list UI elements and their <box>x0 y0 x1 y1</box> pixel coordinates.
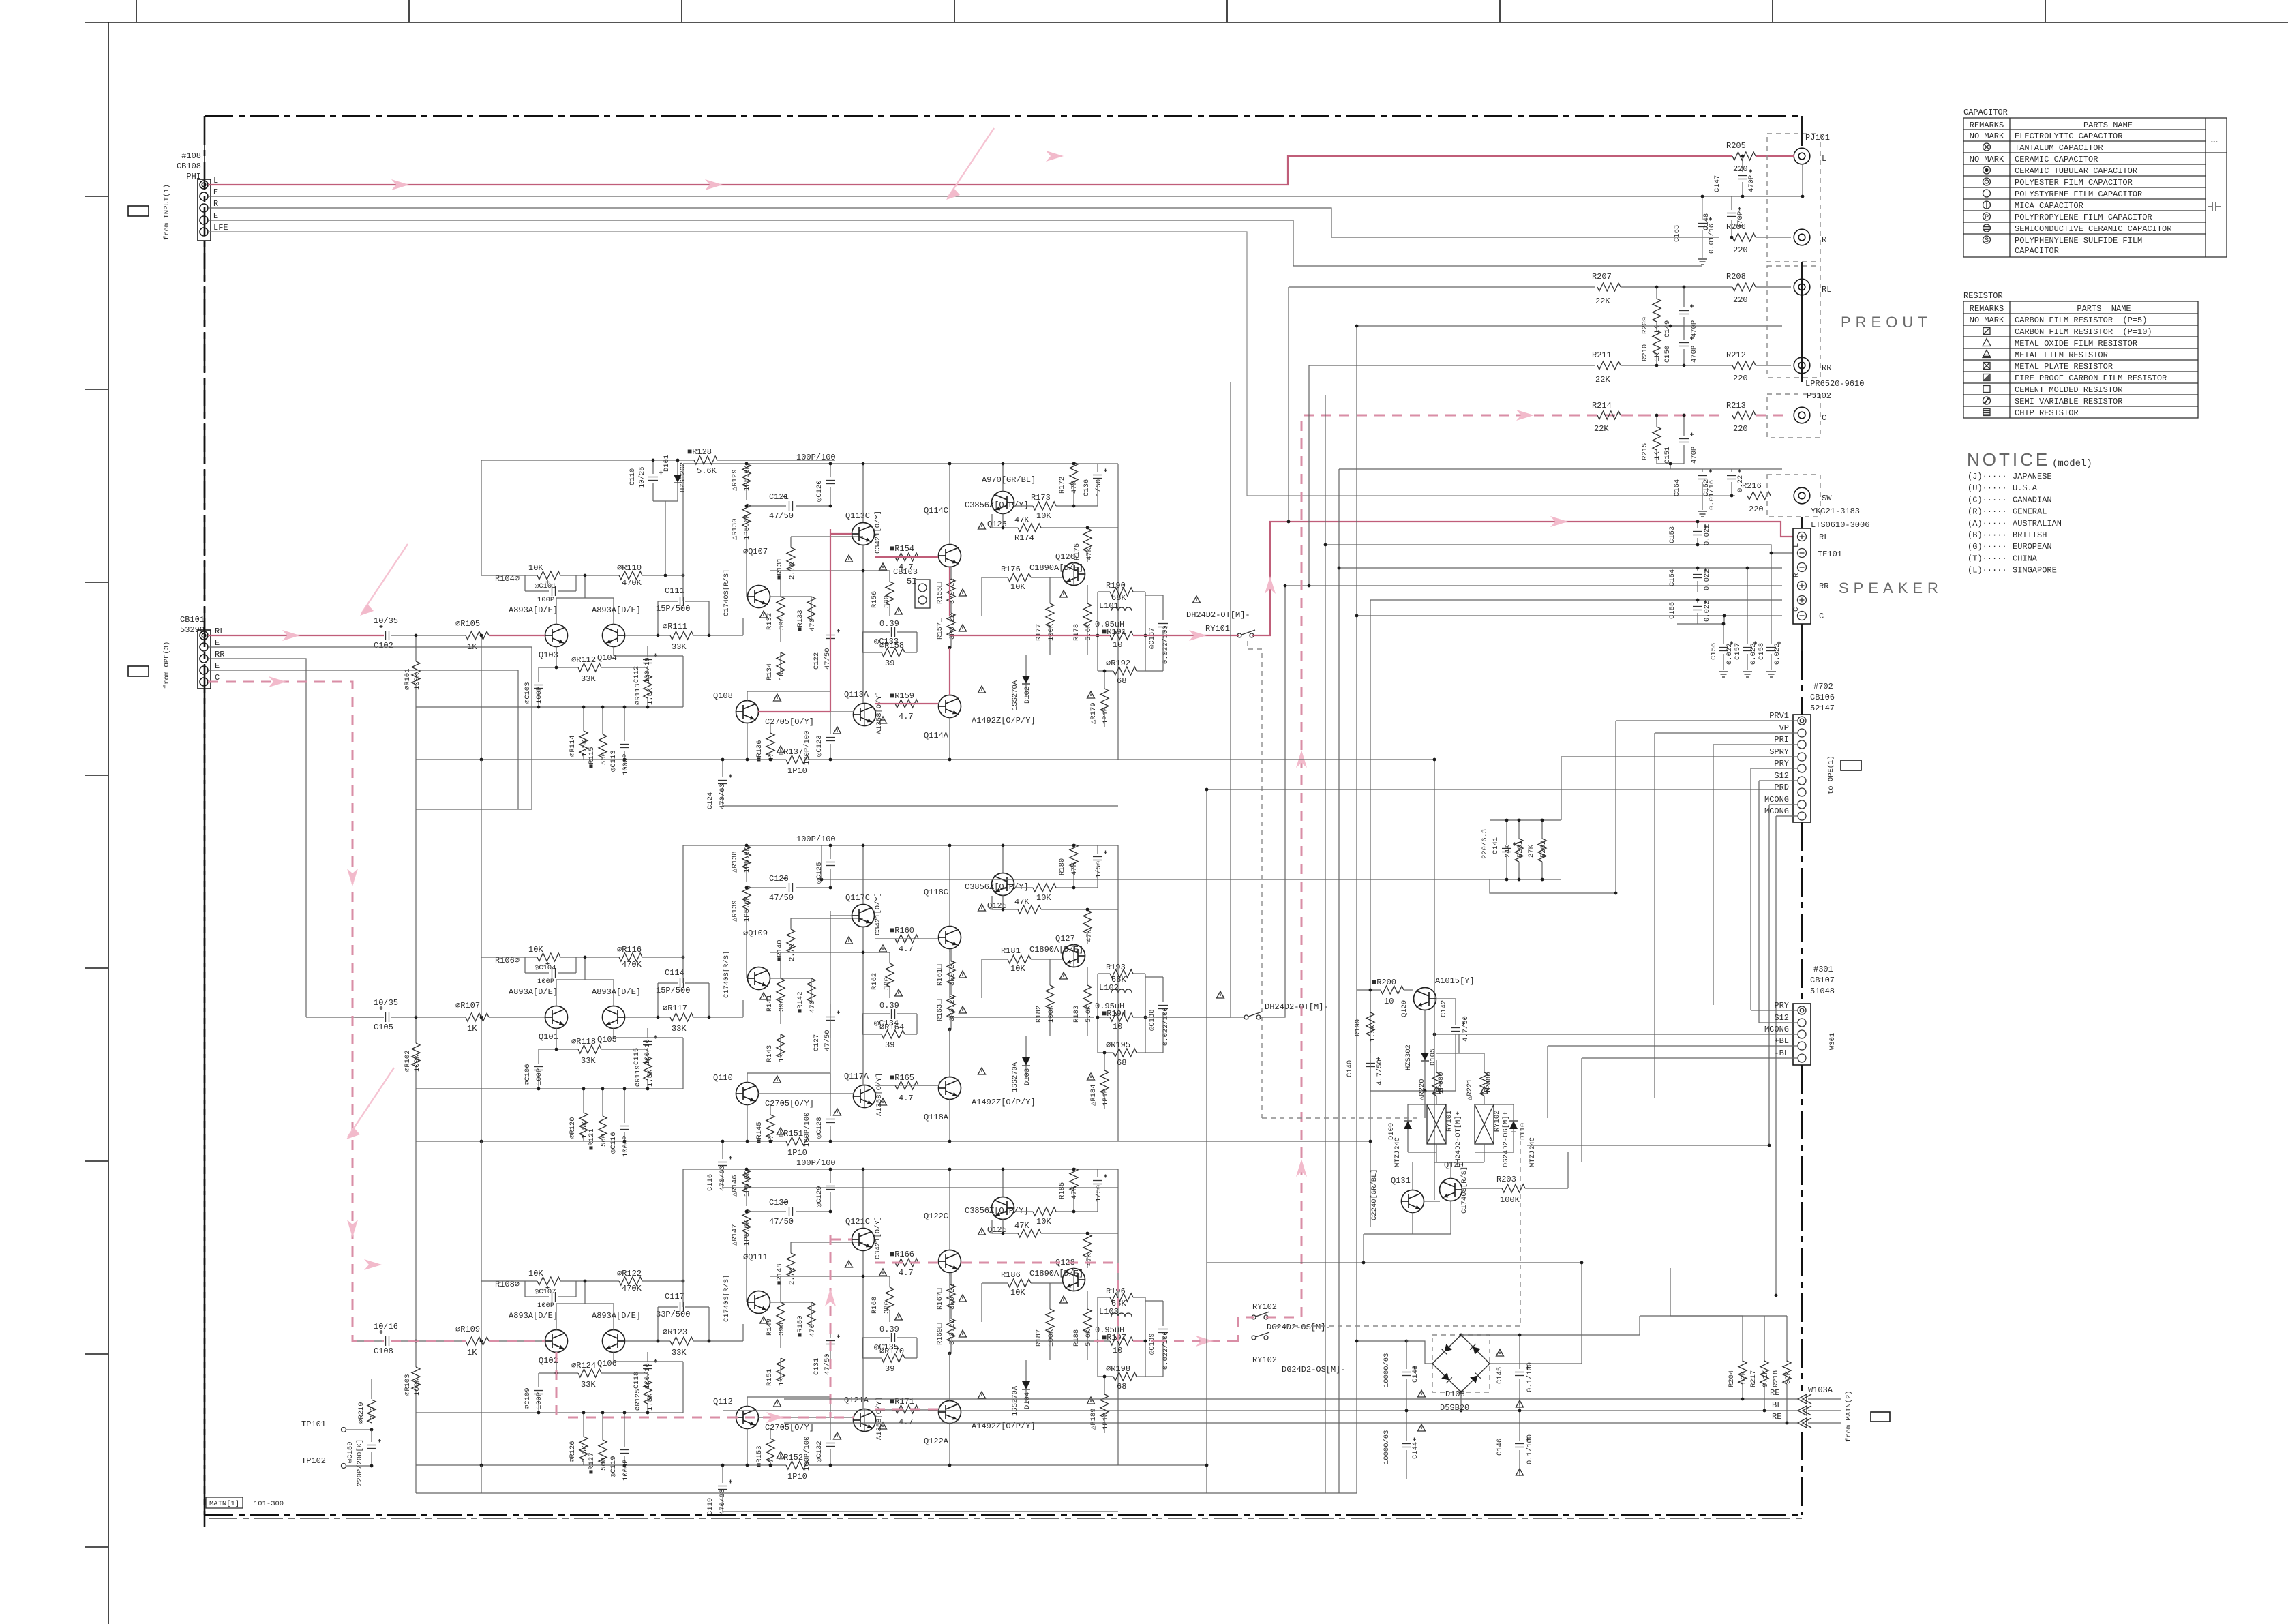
resistor R112 33K <box>578 663 601 672</box>
from OPE(3) off-page marker <box>128 666 149 676</box>
dashed outline PJ102 C jack <box>1767 394 1820 438</box>
svg-text:R212: R212 <box>1726 350 1746 360</box>
resistor R130 1P5.6K vertical <box>742 504 751 527</box>
svg-text:Q113A: Q113A <box>844 690 869 700</box>
svg-text:R186: R186 <box>1001 1270 1021 1280</box>
svg-text:⌀R119: ⌀R119 <box>634 1065 642 1087</box>
resistor R194 10 <box>1110 1013 1133 1021</box>
cap C135 0.39 <box>891 1333 892 1342</box>
resistor R218 82K vertical <box>1786 1316 1788 1362</box>
svg-text:⌀R114: ⌀R114 <box>569 735 577 757</box>
svg-text:R134: R134 <box>766 663 774 680</box>
top ruler tick 4 <box>954 0 955 22</box>
svg-text:C1740S[R/S]: C1740S[R/S] <box>1460 1167 1469 1214</box>
svg-text:10000/63: 10000/63 <box>1383 1430 1391 1464</box>
svg-text:C1740S[R/S]: C1740S[R/S] <box>723 569 731 616</box>
diagonal pointer arrow near CB101 <box>361 544 408 614</box>
svg-text:22K: 22K <box>1595 375 1610 385</box>
ecap C140 4.7/50 <box>1366 1063 1375 1064</box>
svg-text:⌀R123: ⌀R123 <box>663 1327 687 1337</box>
svg-text:D105: D105 <box>1429 1049 1437 1066</box>
svg-text:33K: 33K <box>581 1056 596 1066</box>
svg-text:R182: R182 <box>1035 1006 1043 1023</box>
board border bottom <box>205 1514 1802 1516</box>
top ruler tick 6 <box>1499 0 1501 22</box>
svg-text:(T)·····: (T)····· <box>1968 554 2007 563</box>
svg-text:E: E <box>213 211 218 221</box>
svg-text:C142: C142 <box>1440 1000 1448 1017</box>
top ruler tick 8 <box>2045 0 2046 22</box>
svg-text:#702: #702 <box>1813 682 1833 691</box>
svg-text:R215: R215 <box>1641 443 1649 460</box>
svg-text:82K: 82K <box>1740 1370 1748 1384</box>
svg-text:0.022/100: 0.022/100 <box>1162 1331 1170 1370</box>
svg-text:470: 470 <box>809 1324 817 1337</box>
transistor Q125 A970 <box>992 1197 1014 1220</box>
svg-text:RL: RL <box>1822 285 1831 295</box>
cap C111 15P/500 <box>680 597 681 606</box>
svg-text:C119: C119 <box>706 1498 714 1515</box>
svg-text:10K: 10K <box>528 945 543 954</box>
svg-text:POLYESTER FILM CAPACITOR: POLYESTER FILM CAPACITOR <box>2015 178 2133 187</box>
svg-text:C1890A[D/E]: C1890A[D/E] <box>1029 1269 1083 1278</box>
svg-text:1SS270A: 1SS270A <box>1011 1062 1019 1092</box>
svg-text:1SS270A: 1SS270A <box>1011 680 1019 710</box>
svg-text:BRITISH: BRITISH <box>2013 530 2047 540</box>
svg-text:Q122C: Q122C <box>924 1212 948 1221</box>
dashed outline SW jack <box>1767 475 1820 517</box>
svg-text:Q131: Q131 <box>1391 1176 1411 1186</box>
svg-text:Q102: Q102 <box>539 1356 558 1366</box>
svg-text:1/50: 1/50 <box>1095 479 1103 496</box>
resistor R184 1P10 vertical <box>1100 1070 1109 1094</box>
resistor R129 1P5.6K vertical <box>742 464 751 487</box>
block internal verticals <box>481 635 482 760</box>
svg-text:A970[GR/BL]: A970[GR/BL] <box>982 475 1036 485</box>
svg-text:47/50: 47/50 <box>769 893 794 903</box>
svg-text:220: 220 <box>1733 295 1748 305</box>
resistor R146 1P5.6K vertical <box>742 1169 751 1192</box>
svg-text:PHI: PHI <box>186 172 201 181</box>
relay coil RY101 (box with X) <box>1427 1104 1446 1144</box>
bottom long rails <box>416 1492 1357 1494</box>
svg-text:47K: 47K <box>1014 1221 1029 1231</box>
svg-text:△R129: △R129 <box>731 469 739 491</box>
svg-text:0.01/16: 0.01/16 <box>1708 224 1716 254</box>
svg-text:RR: RR <box>215 650 224 659</box>
resistor R125 1.5K (vertical) <box>644 1381 652 1404</box>
resistor R149 390 vertical <box>777 1302 785 1325</box>
top ruler tick 2 <box>408 0 410 22</box>
svg-text:C151: C151 <box>1664 447 1672 464</box>
RE/BL/RE wires to W103A <box>784 1398 1798 1400</box>
cap C149 470P vertical <box>1679 310 1689 312</box>
svg-text:470K: 470K <box>622 960 642 969</box>
svg-text:C3856Z[O/P/Y]: C3856Z[O/P/Y] <box>965 882 1029 892</box>
MCONG horizontal y=1680 <box>1527 1145 1769 1146</box>
resistor R118 33K <box>578 1045 601 1053</box>
resistor R177 100K vertical <box>1046 603 1054 627</box>
svg-text:Q114C: Q114C <box>924 506 948 515</box>
resistor R209 1K vertical <box>1653 299 1661 322</box>
PJ101 jack SW <box>1794 487 1810 504</box>
svg-text:C1740S[R/S]: C1740S[R/S] <box>723 1275 731 1322</box>
svg-text:100K: 100K <box>413 672 421 690</box>
svg-text:MICA CAPACITOR: MICA CAPACITOR <box>2015 201 2083 211</box>
svg-text:⌀R198: ⌀R198 <box>1106 1364 1130 1374</box>
resistor R221 1P680 vertical <box>1480 1072 1488 1096</box>
arrow on RL input <box>282 630 300 641</box>
svg-text:A1358[O/Y]: A1358[O/Y] <box>875 691 884 734</box>
SW network C164 <box>1698 475 1707 477</box>
arrow down on C vertical <box>347 869 358 886</box>
svg-text:100P/100: 100P/100 <box>796 834 836 844</box>
resistor R152 1P10 <box>786 1461 809 1469</box>
resistor R182 100K vertical <box>1046 985 1054 1008</box>
ecap C116 470/63 <box>718 1162 727 1163</box>
relay contact RY101 in speaker line <box>1237 633 1241 637</box>
svg-text:CARBON FILM RESISTOR (P=5): CARBON FILM RESISTOR (P=5) <box>2015 316 2147 325</box>
transistor Q129 A1015 <box>1414 988 1436 1010</box>
block lower rail <box>416 1141 786 1142</box>
svg-text:C102: C102 <box>374 641 393 650</box>
bus vertical 4 (to TE101 C-) <box>1356 326 1357 1493</box>
svg-text:1K: 1K <box>778 672 786 680</box>
rail y1187 extension <box>416 809 532 810</box>
resistor R110 470K <box>619 571 642 580</box>
svg-text:⌀C109: ⌀C109 <box>524 1387 532 1409</box>
resistor 47K feedback <box>1018 905 1041 914</box>
arrow right speaker line <box>1550 516 1568 527</box>
svg-text:10K: 10K <box>528 1269 543 1278</box>
svg-text:POLYSTYRENE FILM CAPACITOR: POLYSTYRENE FILM CAPACITOR <box>2015 190 2142 199</box>
cap C107 100P <box>552 1292 553 1302</box>
svg-text:4.7: 4.7 <box>899 944 914 954</box>
diagonal pointer arrow bottom block <box>348 1068 394 1137</box>
svg-text:DG24D2-OS[M]+: DG24D2-OS[M]+ <box>1502 1111 1510 1167</box>
svg-text:◎C138: ◎C138 <box>1148 1009 1156 1031</box>
svg-text:FIRE PROOF CARBON FILM RESISTO: FIRE PROOF CARBON FILM RESISTOR <box>2015 374 2167 383</box>
left ruler tick 7 <box>85 1353 108 1355</box>
ecap C131 47/50 vertical <box>826 1340 835 1342</box>
svg-text:Q121C: Q121C <box>845 1217 870 1227</box>
transistor Q117C C3421 upper <box>852 905 875 927</box>
inductor L103 0.95uH <box>1111 1313 1132 1317</box>
bottom block lower rail extension <box>1118 1464 1207 1466</box>
ecap C136 1/50 <box>1093 475 1102 476</box>
svg-text:R177: R177 <box>1035 624 1043 641</box>
svg-text:4.7: 4.7 <box>899 1094 914 1103</box>
relay contact RY102 lower <box>1252 1336 1256 1340</box>
lower driver wiring <box>758 1417 854 1418</box>
svg-text:⌀R111: ⌀R111 <box>663 622 687 631</box>
resistor R133 470 vertical <box>807 597 815 620</box>
svg-text:POLYPROPYLENE FILM CAPACITOR: POLYPROPYLENE FILM CAPACITOR <box>2015 213 2152 222</box>
resistor 10K <box>1033 1207 1056 1216</box>
svg-text:△R220: △R220 <box>1418 1079 1426 1100</box>
svg-text:10000/63: 10000/63 <box>1383 1353 1391 1387</box>
svg-text:GENERAL: GENERAL <box>2013 507 2047 517</box>
svg-text:⌀C106: ⌀C106 <box>524 1064 532 1085</box>
svg-text:470/63: 470/63 <box>719 783 727 809</box>
svg-text:10K: 10K <box>1036 1217 1051 1227</box>
cap C148 470P <box>1727 213 1736 214</box>
svg-text:◎C139: ◎C139 <box>1148 1333 1156 1355</box>
top ruler tick 7 <box>1772 0 1773 22</box>
svg-text:10: 10 <box>1113 1022 1122 1032</box>
svg-text:R208: R208 <box>1726 272 1746 282</box>
svg-text:■R142: ■R142 <box>796 991 804 1013</box>
resistor R157 0.22 vertical <box>947 613 955 636</box>
input coupling cap C108 <box>385 1336 387 1346</box>
cap C163 0.01/16 <box>1698 223 1707 224</box>
svg-text:100P: 100P <box>535 1068 543 1085</box>
resistor R195 68 <box>1113 1049 1137 1057</box>
preout network R208 <box>1732 283 1756 291</box>
svg-text:VP: VP <box>1779 723 1789 733</box>
resistor R217 9.1K vertical <box>1764 1316 1765 1362</box>
resistor R108 10K <box>537 1277 560 1285</box>
svg-text:⌀R109: ⌀R109 <box>455 1325 480 1334</box>
svg-text:C2240[GR/BL]: C2240[GR/BL] <box>1370 1169 1379 1220</box>
svg-text:⎓: ⎓ <box>2211 136 2218 146</box>
preout network R205 <box>1732 152 1756 160</box>
svg-text:0.39: 0.39 <box>879 1001 899 1010</box>
svg-text:220: 220 <box>1733 245 1748 255</box>
transistor Q114C C3856Z upper output <box>939 545 961 567</box>
pink dashed through RY102 up to PJ102 C <box>1234 1317 1254 1341</box>
input coupling cap C102 <box>385 631 387 640</box>
svg-text:R211: R211 <box>1592 350 1612 360</box>
svg-text:R216: R216 <box>1742 481 1762 491</box>
board border right segment 3 <box>1801 822 1803 1004</box>
relay contact RY102 upper <box>1252 1315 1256 1319</box>
svg-text:15P/500: 15P/500 <box>656 604 690 614</box>
svg-text:⌀R110: ⌀R110 <box>617 563 642 573</box>
svg-text:CERAMIC TUBULAR CAPACITOR: CERAMIC TUBULAR CAPACITOR <box>2015 166 2137 176</box>
svg-text:C2705[O/Y]: C2705[O/Y] <box>765 717 814 727</box>
speaker line cap C153 0.022 <box>1693 531 1702 532</box>
svg-text:390: 390 <box>778 617 786 630</box>
resistor R111 33K <box>670 631 693 640</box>
ecap C141 220/6.3 <box>1502 848 1511 849</box>
svg-text:S12: S12 <box>1774 1013 1789 1023</box>
driver Q109 C1740S <box>748 967 770 990</box>
resistor 10K <box>1033 884 1056 892</box>
svg-text:A893A[D/E]: A893A[D/E] <box>592 987 641 997</box>
svg-text:⌀R126: ⌀R126 <box>569 1441 577 1462</box>
svg-text:R151: R151 <box>766 1369 774 1386</box>
svg-text:470: 470 <box>809 618 817 631</box>
ecap C127 47/50 vertical <box>826 1017 835 1018</box>
cap C114 15P/500 <box>680 978 681 988</box>
ecap C122 47/50 vertical <box>826 635 835 636</box>
transistor Q113A A1358 <box>854 704 876 726</box>
svg-text:A893A[D/E]: A893A[D/E] <box>592 1311 641 1321</box>
svg-text:1000P: 1000P <box>622 753 630 775</box>
cap C138 0.022/100 <box>1158 1005 1168 1006</box>
svg-text:R132: R132 <box>766 613 774 630</box>
input pair transistor Q106 A893A <box>603 1330 625 1353</box>
svg-text:1.5K: 1.5K <box>1369 1024 1377 1042</box>
svg-text:100K: 100K <box>1047 1005 1055 1023</box>
svg-text:A1492Z[O/P/Y]: A1492Z[O/P/Y] <box>972 716 1036 725</box>
svg-text:■R136: ■R136 <box>755 740 764 762</box>
svg-text:A893A[D/E]: A893A[D/E] <box>592 605 641 615</box>
svg-text:10K: 10K <box>1036 511 1051 521</box>
svg-text:C122: C122 <box>813 652 821 670</box>
svg-text:1K: 1K <box>1653 352 1661 361</box>
svg-text:0.022: 0.022 <box>1703 569 1711 590</box>
resistor R123 33K <box>670 1337 693 1345</box>
block top rail 100P/100 <box>683 1169 1118 1170</box>
svg-text:SW: SW <box>1822 494 1832 503</box>
ecap C143 10000/63 <box>1402 1372 1411 1373</box>
svg-text:ELECTROLYTIC CAPACITOR: ELECTROLYTIC CAPACITOR <box>2015 132 2122 141</box>
svg-text:390: 390 <box>778 1323 786 1336</box>
cap C151 470P vertical <box>1679 438 1689 440</box>
svg-text:E: E <box>215 661 220 671</box>
svg-text:C156: C156 <box>1710 643 1718 660</box>
cap C125 100P/100 <box>826 862 835 863</box>
bus vertical x1805 <box>1230 382 1231 1017</box>
svg-text:10K: 10K <box>528 563 543 573</box>
svg-text:R185: R185 <box>1058 1182 1066 1199</box>
svg-text:(J)·····: (J)····· <box>1968 472 2007 481</box>
lower driver wiring <box>758 1093 854 1094</box>
resistor R114 1.5K vertical to lower rail <box>583 707 584 731</box>
wire E2 from CB108 <box>208 220 1702 266</box>
svg-text:CHIP RESISTOR: CHIP RESISTOR <box>2015 408 2079 418</box>
svg-text:1P10: 1P10 <box>1102 707 1110 724</box>
svg-text:PARTS NAME: PARTS NAME <box>2077 304 2131 314</box>
resistor R191 10 <box>1110 631 1133 640</box>
svg-text:W301: W301 <box>1828 1033 1837 1050</box>
svg-text:C152: C152 <box>1702 479 1711 496</box>
svg-text:◎C104: ◎C104 <box>535 964 556 972</box>
resistor R102 100K (vertical) <box>415 1017 417 1043</box>
svg-text:◎C113: ◎C113 <box>609 750 618 772</box>
inter-block supply verticals x=706 <box>481 760 482 1017</box>
svg-text:R161□: R161□ <box>936 964 944 986</box>
svg-text:470K: 470K <box>622 1284 642 1293</box>
svg-text:TP101: TP101 <box>301 1419 326 1429</box>
wire to TE101 RR+ <box>1285 585 1782 586</box>
arrow out 1 <box>1189 630 1207 641</box>
svg-text:△R146: △R146 <box>731 1175 739 1197</box>
transistor Q117A A1358 <box>854 1085 876 1108</box>
resistor R122 470K <box>619 1277 642 1285</box>
svg-text:R183: R183 <box>1072 1006 1081 1023</box>
cap C129 100P/100 <box>826 1186 835 1187</box>
svg-text:C108: C108 <box>374 1347 393 1356</box>
resistor R158 39 <box>882 648 905 657</box>
svg-text:R209: R209 <box>1641 317 1649 334</box>
resistor R201 24K vertical <box>1515 839 1523 862</box>
svg-text:4.7/50: 4.7/50 <box>1462 1016 1470 1042</box>
svg-text:C163: C163 <box>1673 225 1681 242</box>
long vertical bus to power section <box>1434 760 1435 1200</box>
jack L ground stub <box>1802 164 1803 196</box>
svg-text:560: 560 <box>600 1134 608 1147</box>
svg-text:⌀R192: ⌀R192 <box>1106 659 1130 668</box>
svg-text:⌀R117: ⌀R117 <box>663 1004 687 1013</box>
svg-text:C150: C150 <box>1664 346 1672 363</box>
svg-text:from OPE(3): from OPE(3) <box>163 642 171 689</box>
svg-text:L102: L102 <box>1099 983 1119 993</box>
svg-text:R190: R190 <box>1106 581 1126 590</box>
svg-text:0.022: 0.022 <box>1703 600 1711 622</box>
cap C120 100P/100 <box>826 480 835 481</box>
svg-text:A1015[Y]: A1015[Y] <box>1435 976 1475 986</box>
svg-text:■R171: ■R171 <box>890 1397 914 1407</box>
resistor R132 390 vertical <box>777 597 785 620</box>
bus vertical 1 <box>1206 790 1207 1493</box>
svg-text:0.022/100: 0.022/100 <box>1162 625 1170 664</box>
svg-text:Q129: Q129 <box>1400 1000 1409 1017</box>
svg-text:Q121A: Q121A <box>844 1396 869 1405</box>
svg-text:R: R <box>213 199 218 209</box>
svg-text:1P5.6K: 1P5.6K <box>743 895 751 922</box>
svg-text:15P/500: 15P/500 <box>656 986 690 995</box>
svg-text:1P5.6K: 1P5.6K <box>743 464 751 491</box>
top rail left corner and R128 <box>694 456 717 464</box>
left ruler tick 5 <box>85 967 108 969</box>
transistor Q125 A970 <box>992 492 1014 514</box>
resistor R164 39 <box>882 1030 905 1038</box>
speaker terminal TE101 <box>1792 528 1842 624</box>
transistor Q126 C1890A <box>1063 563 1085 586</box>
ecap C126 47/50 <box>789 883 790 892</box>
resistor R204 82K vertical <box>1738 1361 1747 1384</box>
svg-text:⌀R112: ⌀R112 <box>571 655 596 665</box>
power section links <box>1405 1409 1409 1413</box>
svg-text:⌀R158: ⌀R158 <box>879 641 904 650</box>
ecap C112 100/16 <box>643 659 652 661</box>
wire L from CB108 to PJ101 <box>208 156 1732 185</box>
svg-text:1K: 1K <box>1653 451 1661 460</box>
svg-text:C126: C126 <box>769 874 789 884</box>
svg-text:RY102: RY102 <box>1252 1355 1277 1365</box>
svg-text:⌀R195: ⌀R195 <box>1106 1040 1130 1050</box>
svg-text:470K: 470K <box>622 578 642 588</box>
svg-text:A1358[O/Y]: A1358[O/Y] <box>875 1073 884 1116</box>
left ruler tick 3 <box>85 582 108 583</box>
svg-text:CANADIAN: CANADIAN <box>2013 495 2052 505</box>
input pair transistor Q101 A893A <box>545 1006 568 1029</box>
block internal verticals <box>481 1017 482 1141</box>
resistor R159 4.7 lower <box>895 700 918 708</box>
svg-text:1000P: 1000P <box>622 1135 630 1157</box>
relay cluster rails <box>1408 1104 1436 1105</box>
transistor Q121A A1358 <box>854 1409 876 1432</box>
svg-text:220: 220 <box>1749 505 1764 514</box>
svg-text:10K: 10K <box>1036 893 1051 903</box>
svg-text:DH24D2-OT[M]-: DH24D2-OT[M]- <box>1186 610 1250 620</box>
arrow bottom block inner 1 <box>364 1259 382 1270</box>
dashed outline PREOUT jacks RL/RR <box>1767 266 1820 378</box>
svg-text:◎C137: ◎C137 <box>1148 627 1156 649</box>
svg-text:C130: C130 <box>769 1198 789 1207</box>
ecap C119 470/63 <box>718 1486 727 1487</box>
middle block internal wires (gray) <box>830 911 831 1094</box>
svg-text:0.39: 0.39 <box>879 1325 899 1334</box>
cap C133 0.39 <box>891 627 892 637</box>
svg-text:A1358[O/Y]: A1358[O/Y] <box>875 1397 884 1440</box>
svg-text:from INPUT(1): from INPUT(1) <box>163 184 171 240</box>
svg-text:100P: 100P <box>535 1392 543 1409</box>
svg-text:RY102: RY102 <box>1493 1110 1501 1132</box>
